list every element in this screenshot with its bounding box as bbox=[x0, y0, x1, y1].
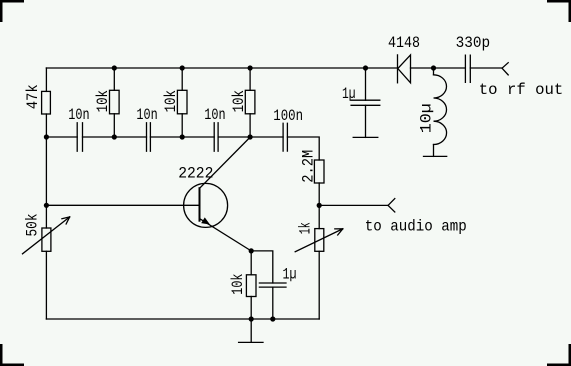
potentiometer R6 1k body bbox=[315, 229, 324, 252]
transistor Q1 base bar bbox=[199, 188, 201, 221]
wire left column mid bbox=[45, 137, 47, 228]
node bottom rail at C5 bbox=[270, 316, 275, 321]
node top rail at R4 bbox=[248, 65, 253, 70]
svg-text:2.2M: 2.2M bbox=[299, 150, 317, 183]
svg-text:10n: 10n bbox=[68, 106, 89, 124]
ground below emitter bbox=[239, 319, 263, 342]
wire mid rail segment 3 bbox=[150, 136, 214, 138]
svg-text:1µ: 1µ bbox=[283, 266, 297, 284]
svg-text:10k: 10k bbox=[229, 274, 247, 295]
connector to rf out bbox=[502, 63, 508, 75]
svg-text:to rf out: to rf out bbox=[479, 81, 564, 99]
node mid rail at R4 collector bbox=[248, 134, 253, 139]
node top rail at R2 bbox=[112, 65, 117, 70]
resistor R8 10k emitter bbox=[246, 275, 256, 297]
node top rail at C6 bbox=[363, 65, 368, 70]
node emitter bbox=[249, 248, 254, 253]
potentiometer R7 50k body bbox=[42, 228, 51, 251]
svg-text:10n: 10n bbox=[136, 106, 157, 124]
capacitor C5 1u emitter bbox=[259, 283, 286, 287]
node mid rail at 47k bbox=[44, 134, 49, 139]
wire 50k bottom bbox=[45, 251, 47, 319]
svg-text:to audio amp: to audio amp bbox=[365, 217, 467, 235]
wire mid rail segment 2 bbox=[83, 136, 147, 138]
resistor R2 10k bbox=[113, 68, 115, 90]
svg-text:10k: 10k bbox=[230, 90, 248, 112]
wire audio out bbox=[319, 204, 388, 206]
node base left bbox=[44, 203, 49, 208]
potentiometer R7 arrow bbox=[23, 217, 70, 254]
resistor R4 10k bbox=[249, 68, 251, 90]
node mid rail at R3 bbox=[180, 134, 185, 139]
capacitor C2 10n bbox=[147, 123, 151, 151]
wire base bbox=[46, 204, 198, 206]
capacitor C7 330p bbox=[465, 55, 470, 82]
node top rail at L1 bbox=[431, 65, 436, 70]
capacitor C6 1u top bbox=[351, 100, 380, 105]
node mid rail at R2 bbox=[112, 134, 117, 139]
svg-text:1k: 1k bbox=[296, 222, 314, 234]
potentiometer R6 arrow bbox=[295, 229, 343, 252]
node top rail at R3 bbox=[180, 65, 185, 70]
transistor Q1 collector bbox=[200, 137, 250, 188]
wire 47k bottom bbox=[45, 114, 47, 137]
ground below C6 bbox=[353, 136, 378, 138]
wire emitter to C5 bbox=[251, 251, 273, 283]
wire rf out bbox=[470, 67, 502, 69]
connector to audio amp bbox=[388, 199, 395, 212]
svg-text:330p: 330p bbox=[456, 34, 491, 52]
wire top rail bbox=[46, 67, 397, 69]
corner mark bottom-left bbox=[0, 364, 24, 366]
node bottom rail at R8 bbox=[249, 316, 254, 321]
svg-text:10µ: 10µ bbox=[417, 103, 435, 133]
transistor Q1 emitter bbox=[200, 219, 251, 251]
svg-text:10n: 10n bbox=[204, 106, 225, 124]
node audio junction bbox=[317, 203, 322, 208]
corner mark top-right bbox=[547, 0, 571, 3]
svg-text:2222: 2222 bbox=[178, 165, 213, 183]
wire mid rail segment 1 bbox=[46, 136, 77, 138]
wire bottom rail bbox=[46, 318, 319, 320]
svg-text:1µ: 1µ bbox=[342, 85, 356, 103]
diode D1 4148 bbox=[397, 55, 399, 83]
wire 2.2M to 1k bbox=[318, 183, 320, 229]
wire 1k bottom bbox=[318, 251, 320, 319]
corner mark bottom-right bbox=[547, 364, 571, 366]
svg-text:10k: 10k bbox=[162, 90, 180, 112]
wire diode to cap bbox=[411, 67, 466, 69]
resistor R5 2.2M bbox=[314, 160, 324, 183]
transistor Q1 2222 circle bbox=[184, 183, 228, 227]
transistor Q1 emitter arrow bbox=[202, 218, 209, 224]
ground below inductor bbox=[424, 155, 447, 157]
svg-text:100n: 100n bbox=[273, 107, 303, 125]
svg-text:10k: 10k bbox=[94, 90, 112, 112]
wire mid rail to 2.2M bbox=[287, 137, 319, 160]
inductor L1 10u bbox=[433, 68, 435, 75]
capacitor C4 100n bbox=[283, 123, 287, 151]
wire emitter column bbox=[250, 251, 252, 275]
capacitor C1 10n bbox=[77, 123, 82, 151]
resistor R3 10k bbox=[181, 68, 183, 90]
resistor R1 47k bbox=[42, 91, 51, 114]
svg-text:4148: 4148 bbox=[388, 34, 420, 52]
svg-text:50k: 50k bbox=[24, 214, 42, 237]
capacitor C3 10n bbox=[214, 123, 218, 151]
svg-text:47k: 47k bbox=[24, 84, 42, 109]
wire mid rail segment 4 bbox=[218, 136, 283, 138]
wire left column top bbox=[45, 68, 47, 91]
corner mark top-left bbox=[0, 0, 24, 3]
wire 1u top branch bbox=[365, 68, 367, 100]
